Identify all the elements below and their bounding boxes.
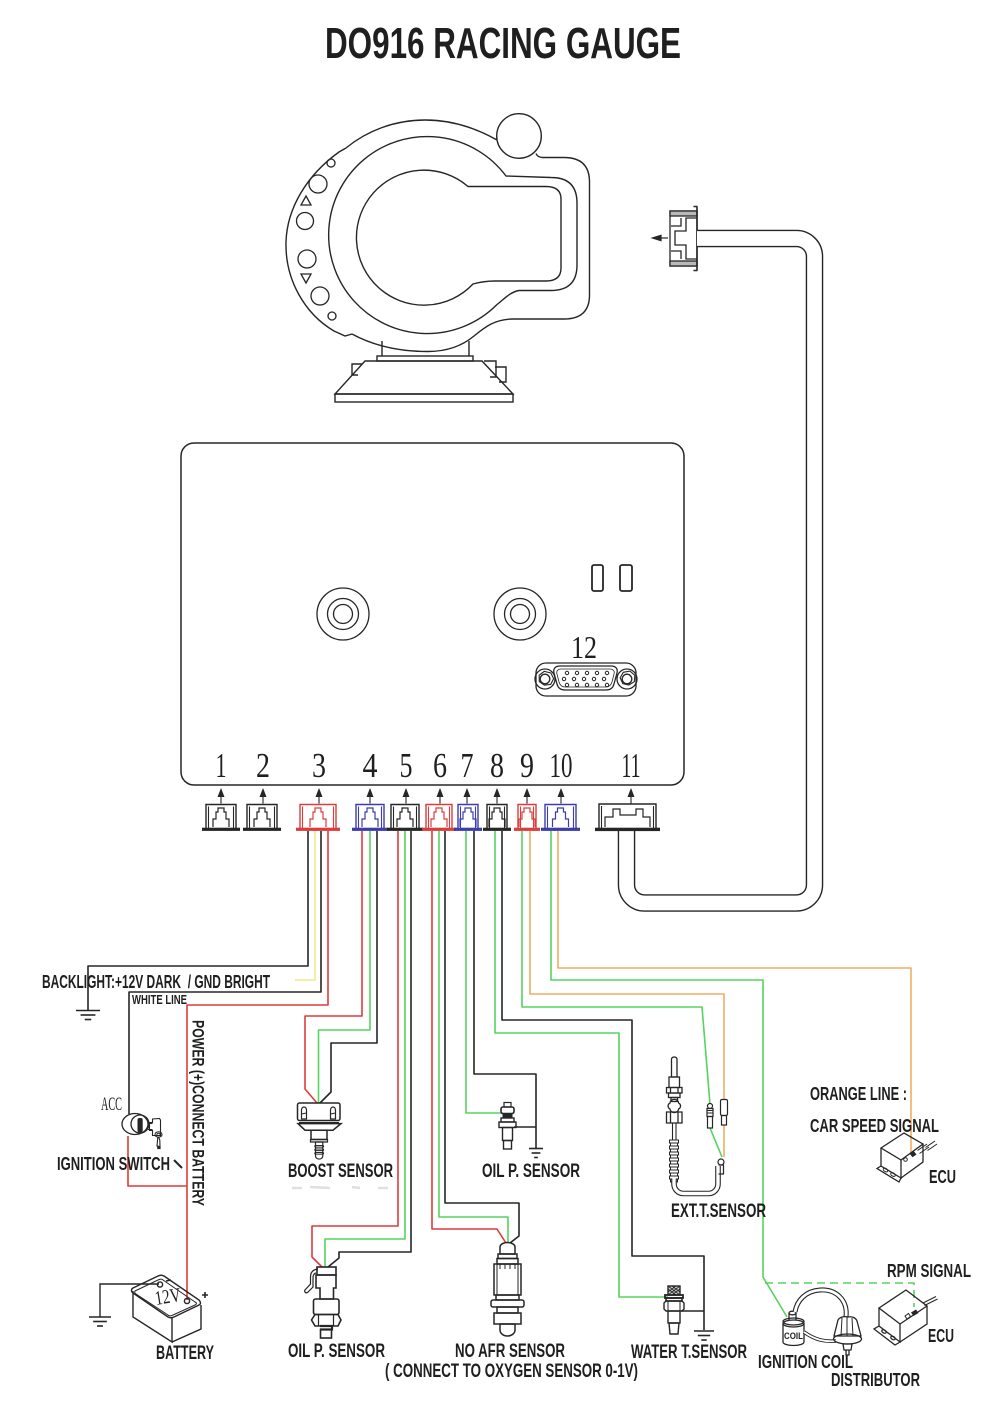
gauge pod outline xyxy=(346,120,590,352)
svg-text:4: 4 xyxy=(363,746,378,785)
wire oil2 green xyxy=(325,831,405,1267)
VGA port xyxy=(535,663,637,696)
wire oil1 black ground xyxy=(474,831,536,1148)
svg-text:BACKLIGHT:+12V DARK / GND BRI: BACKLIGHT:+12V DARK / GND BRIGHT xyxy=(42,972,270,992)
slot right xyxy=(620,565,632,591)
gauge harness connector plug xyxy=(670,207,698,271)
svg-text:WATER T.SENSOR: WATER T.SENSOR xyxy=(631,1341,747,1363)
connector 4 xyxy=(352,805,388,831)
svg-text:IGNITION SWITCH: IGNITION SWITCH xyxy=(57,1153,170,1174)
ignition switch xyxy=(122,1114,162,1150)
arrows to box xyxy=(218,790,633,804)
svg-text:7: 7 xyxy=(461,746,474,785)
connector 2 xyxy=(243,805,281,831)
svg-text:9: 9 xyxy=(520,746,534,785)
mounting hole left xyxy=(317,588,369,640)
erased text remnant xyxy=(292,1187,388,1188)
ext sensor coil section xyxy=(670,1140,679,1182)
wire afr green xyxy=(439,831,508,1243)
svg-text:RPM SIGNAL: RPM SIGNAL xyxy=(887,1261,971,1281)
label ignition coil xyxy=(758,1351,853,1372)
label ext t sensor xyxy=(671,1200,766,1222)
label ECU 1 xyxy=(929,1167,956,1187)
ext temperature sensor probe xyxy=(667,1057,683,1140)
ext sensor lead tube xyxy=(674,1164,718,1194)
svg-text:ECU: ECU xyxy=(929,1167,956,1187)
coil low tension wire xyxy=(804,1332,836,1341)
svg-text:OIL P. SENSOR: OIL P. SENSOR xyxy=(288,1340,385,1362)
svg-text:DISTRIBUTOR: DISTRIBUTOR xyxy=(831,1369,920,1390)
wire ignition switch red xyxy=(128,1136,187,1186)
svg-text:12: 12 xyxy=(571,629,597,665)
connector 7 xyxy=(454,805,482,831)
slot left xyxy=(592,565,603,591)
ext sensor tip xyxy=(718,1159,724,1174)
wire white line black xyxy=(129,831,321,1114)
svg-text:DO916 RACING GAUGE: DO916 RACING GAUGE xyxy=(325,19,681,68)
battery xyxy=(132,1275,209,1342)
control box xyxy=(181,443,684,785)
port numbers 1-11 xyxy=(216,746,641,785)
svg-text:11: 11 xyxy=(622,746,641,785)
connector 8 xyxy=(483,805,511,831)
label ignition switch xyxy=(57,1153,182,1174)
svg-text:POWER (+)CONNECT BATTERY: POWER (+)CONNECT BATTERY xyxy=(189,1020,207,1206)
svg-text:OIL P. SENSOR: OIL P. SENSOR xyxy=(482,1160,580,1182)
wire backlight ground black xyxy=(88,831,308,1010)
svg-text:( CONNECT TO OXYGEN SENSOR 0-1: ( CONNECT TO OXYGEN SENSOR 0-1V) xyxy=(385,1360,638,1382)
gauge mount right tabs xyxy=(484,361,506,382)
connector 10 xyxy=(541,805,580,831)
label rpm signal xyxy=(887,1261,971,1281)
harness cable loop xyxy=(627,238,815,903)
svg-text:BOOST SENSOR: BOOST SENSOR xyxy=(288,1160,393,1182)
svg-text:10: 10 xyxy=(550,746,573,785)
wire oil2 black xyxy=(328,831,411,1267)
gauge mount base xyxy=(335,361,513,402)
oil pressure sensor 2 xyxy=(305,1267,341,1338)
ground battery xyxy=(89,1317,111,1326)
water temperature sensor xyxy=(664,1286,684,1334)
label COIL xyxy=(784,1331,803,1341)
title DO916 RACING GAUGE xyxy=(325,19,681,68)
coil HT cable xyxy=(795,1290,846,1317)
label oil p sensor 1 xyxy=(482,1160,580,1182)
svg-text:5: 5 xyxy=(400,746,413,785)
mounting hole right xyxy=(494,588,546,640)
connector 3 xyxy=(296,805,340,831)
wire rpm dashed green xyxy=(765,1283,914,1307)
battery ground wire xyxy=(100,1284,159,1317)
gauge mount left tab xyxy=(352,364,362,375)
label car speed signal xyxy=(810,1116,939,1136)
gauge mount neck xyxy=(377,341,473,361)
strip buttons xyxy=(297,159,337,320)
distributor xyxy=(834,1317,862,1355)
arrow into plug xyxy=(653,235,669,240)
wire water green xyxy=(495,831,668,1297)
ext sensor pin right xyxy=(721,1100,728,1126)
wire afr red xyxy=(432,831,506,1243)
svg-text:EXT.T.SENSOR: EXT.T.SENSOR xyxy=(671,1200,766,1222)
label battery xyxy=(156,1342,214,1364)
wire backlight yellow xyxy=(295,831,315,980)
connector 11 xyxy=(595,804,660,831)
gauge left button strip xyxy=(286,148,352,336)
ignition coil xyxy=(783,1311,804,1345)
ECU rpm xyxy=(874,1290,938,1345)
svg-text:ECU: ECU xyxy=(928,1326,954,1346)
port 12 label xyxy=(571,629,597,665)
svg-text:6: 6 xyxy=(433,746,447,785)
wire oil1 green xyxy=(466,831,502,1113)
wire rpm green xyxy=(551,831,787,1317)
wire boost red xyxy=(305,831,362,1103)
ext sensor pin left xyxy=(707,1104,713,1129)
svg-text:BATTERY: BATTERY xyxy=(156,1342,214,1364)
gauge display window xyxy=(356,170,561,305)
svg-text:3: 3 xyxy=(312,746,326,785)
label backlight xyxy=(42,972,270,992)
svg-text:ACC: ACC xyxy=(101,1094,122,1115)
wire water black ground xyxy=(502,831,704,1330)
label white line xyxy=(132,993,187,1007)
oil pressure sensor 1 xyxy=(499,1103,516,1150)
wire afr black xyxy=(445,831,519,1243)
connector 1 xyxy=(202,805,240,831)
wire ext green xyxy=(522,831,722,1157)
wire oil2 red xyxy=(312,831,398,1267)
label boost sensor xyxy=(288,1160,393,1182)
svg-text:2: 2 xyxy=(256,746,270,785)
label ACC xyxy=(101,1094,122,1115)
wire car speed orange xyxy=(558,831,911,1153)
connector 5 xyxy=(387,805,423,831)
label ECU 2 xyxy=(928,1326,954,1346)
label power connect battery xyxy=(189,1020,207,1206)
connector 6 xyxy=(422,805,456,831)
label oil p sensor 2 xyxy=(288,1340,385,1362)
boost sensor xyxy=(298,1103,342,1159)
ground backlight xyxy=(76,1011,100,1020)
label no afr sensor xyxy=(385,1340,638,1382)
label orange line xyxy=(810,1084,907,1104)
wire boost black xyxy=(320,831,377,1103)
gauge knob button xyxy=(497,114,542,159)
wire boost green xyxy=(319,831,371,1103)
gauge bezel ring with horn xyxy=(329,137,577,334)
wire ext orange xyxy=(530,831,724,1157)
label water t sensor xyxy=(631,1341,747,1363)
svg-text:COIL: COIL xyxy=(784,1331,803,1341)
svg-text:1: 1 xyxy=(216,746,227,785)
label distributor xyxy=(831,1369,920,1390)
ground water sensor xyxy=(694,1331,714,1340)
connector 9 xyxy=(514,805,540,831)
svg-text:WHITE LINE: WHITE LINE xyxy=(132,993,187,1007)
AFR oxygen sensor xyxy=(491,1243,524,1337)
svg-text:ORANGE LINE :: ORANGE LINE : xyxy=(810,1084,907,1104)
svg-text:8: 8 xyxy=(490,746,504,785)
svg-text:12V: 12V xyxy=(153,1284,183,1310)
svg-text:NO AFR SENSOR: NO AFR SENSOR xyxy=(455,1340,565,1362)
wire power red to battery xyxy=(187,831,328,1300)
svg-text:CAR SPEED SIGNAL: CAR SPEED SIGNAL xyxy=(810,1116,939,1136)
ECU car speed xyxy=(877,1133,937,1182)
label 12V xyxy=(153,1284,183,1310)
ground oil sensor 1 xyxy=(529,1149,543,1158)
